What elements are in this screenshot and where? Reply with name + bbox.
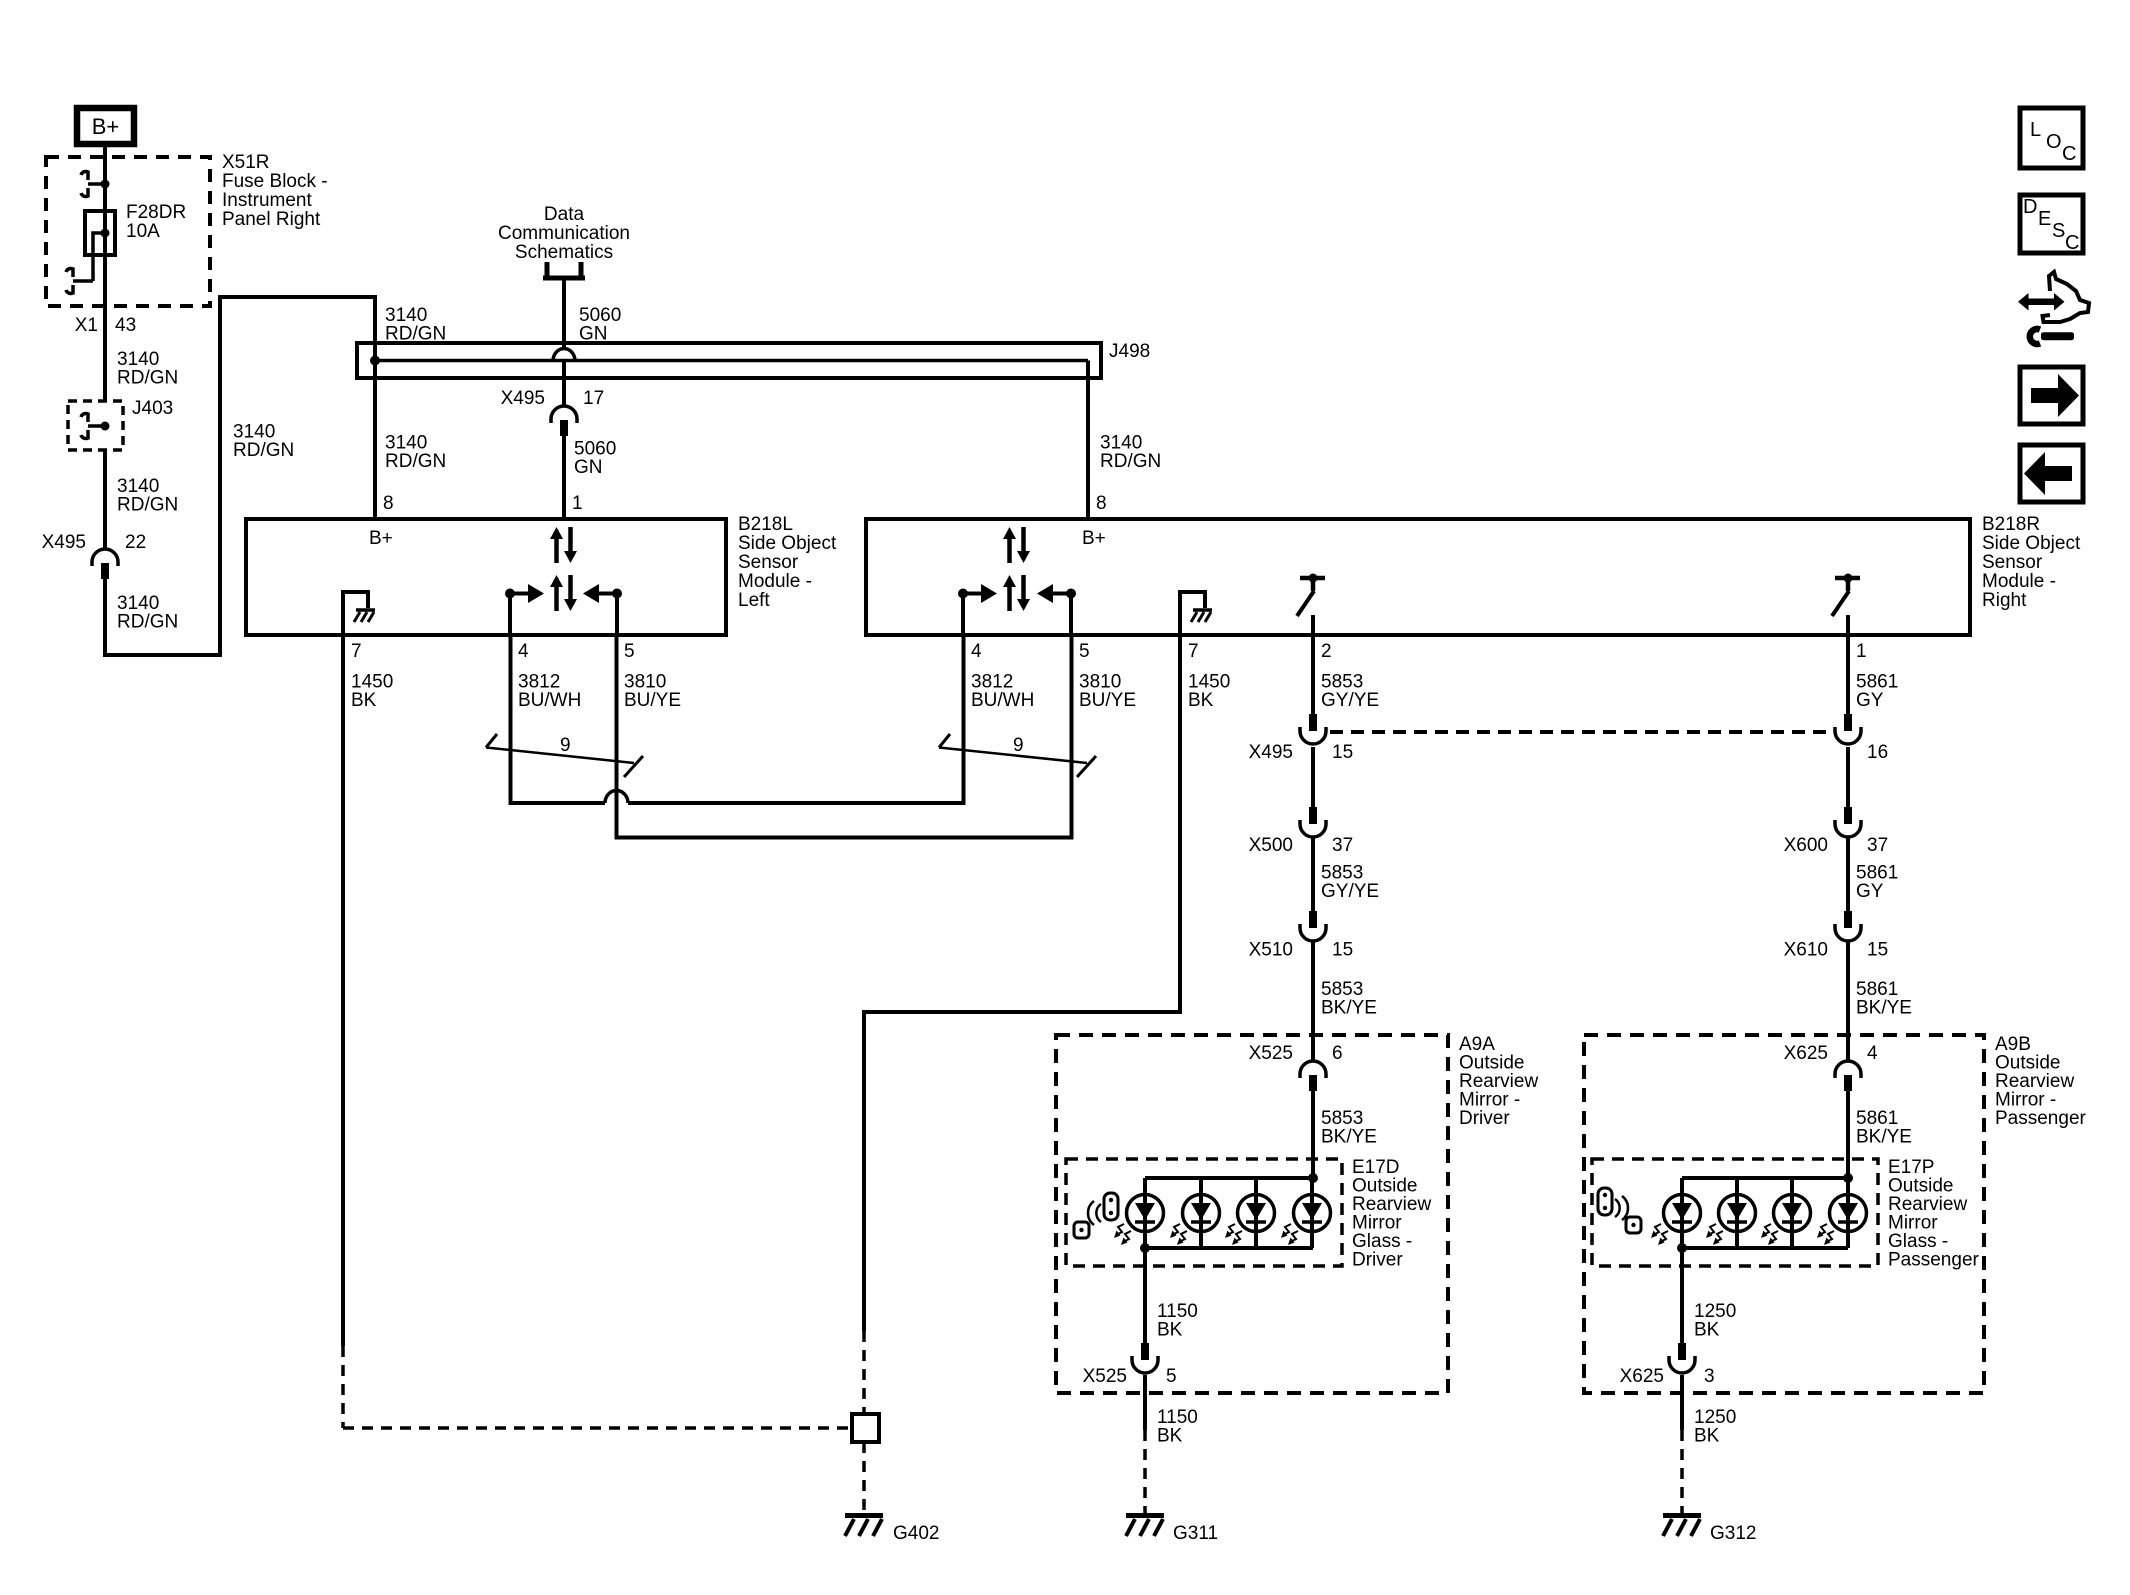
label wire 5060 GN (below X495-17) (574, 439, 616, 479)
label X495 15 (1249, 742, 1354, 763)
fuse F28DR 10A (85, 211, 115, 281)
junction dot E17D bottom (1140, 1243, 1150, 1253)
svg-text:X610: X610 (1784, 940, 1828, 961)
wire 3140 RD/GN rail to B218L pin 8 (373, 297, 377, 519)
clip inside J403 (81, 413, 110, 438)
svg-text:D: D (2023, 196, 2037, 218)
off-page bracket (543, 262, 585, 278)
label X500 37 (1249, 835, 1354, 856)
label B218R Side Object Sensor Module - Right (1982, 514, 2081, 611)
label 16 (1867, 742, 1888, 763)
svg-text:6: 6 (1332, 1043, 1343, 1064)
svg-text:7: 7 (351, 641, 362, 662)
wire 3140 RD/GN rail to B218R pin 8 (1086, 361, 1090, 520)
wire J403 to X495 (103, 450, 107, 549)
svg-text:BK/YE: BK/YE (1321, 998, 1377, 1019)
wire B218L pin 7 dashed to splice (341, 1346, 345, 1428)
connector X495 pin 16 (1835, 714, 1861, 744)
svg-text:Passenger: Passenger (1888, 1250, 1980, 1271)
svg-text:X625: X625 (1620, 1366, 1664, 1387)
svg-text:BK: BK (1157, 1426, 1183, 1447)
label wire 5853 GY/YE (pin 2) (1321, 672, 1379, 712)
label F28DR 10A (126, 202, 186, 242)
svg-text:J403: J403 (132, 398, 173, 419)
wire riser top across to J498 rail (220, 295, 377, 299)
wire to X510 (1311, 837, 1315, 911)
label G312 (1710, 1523, 1756, 1544)
wire B+ feed down into fuse block (103, 146, 107, 182)
wire dashed to G312 (1680, 1430, 1684, 1513)
svg-text:X625: X625 (1784, 1043, 1828, 1064)
ground symbol inside B218L (pin 7) (343, 592, 375, 635)
svg-text:S: S (2052, 220, 2065, 242)
wire X525-5 down (1143, 1375, 1147, 1430)
svg-text:Side Object: Side Object (1982, 533, 2081, 554)
svg-text:8: 8 (1096, 493, 1107, 514)
pin 7 label B218R (1188, 641, 1199, 662)
LED bus bars E17D (1145, 1178, 1313, 1248)
label wire 3140 RD/GN (left rail) (385, 433, 446, 473)
label wire 1450 BK (B218L pin 7) (351, 672, 393, 712)
svg-text:Panel Right: Panel Right (222, 209, 321, 230)
label wire 3140 RD/GN (right rail) (1100, 433, 1161, 473)
svg-text:4: 4 (971, 641, 982, 662)
label J403 (132, 398, 173, 419)
junction dot E17P bottom (1677, 1243, 1687, 1253)
svg-text:C: C (2065, 232, 2079, 254)
svg-text:8: 8 (383, 493, 394, 514)
connector X525 pin 5 (1132, 1343, 1158, 1373)
svg-text:RD/GN: RD/GN (385, 451, 446, 472)
wire to X600 (1846, 747, 1850, 807)
wire dashed across to G402 splice (343, 1426, 852, 1430)
wire dashed down to G402 splice (862, 1331, 866, 1414)
ground G311 (1126, 1516, 1164, 1537)
label X1 43 (75, 315, 136, 336)
label 9 (left) (560, 735, 571, 756)
svg-text:Passenger: Passenger (1995, 1108, 2087, 1129)
svg-text:B+: B+ (92, 114, 120, 139)
label wire 3812 BU/WH (B218R pin 4) (971, 672, 1034, 712)
junction dot E17P top (1843, 1173, 1853, 1183)
svg-text:B218R: B218R (1982, 514, 2040, 535)
label B+ inside B218R (1082, 528, 1106, 549)
label B218L Side Object Sensor Module - Left (738, 514, 837, 611)
wire to X525 (1311, 941, 1315, 1061)
wire 1250 BK from E17P (1680, 1248, 1684, 1343)
svg-text:4: 4 (1867, 1043, 1878, 1064)
svg-text:RD/GN: RD/GN (117, 612, 178, 633)
wire to X625 (1846, 941, 1850, 1061)
pin 5 label B218R (1079, 641, 1090, 662)
label wire 5853 GY/YE (below X495) (1321, 863, 1379, 903)
wire hop of 5060 GN over J498 bus (553, 349, 575, 362)
svg-text:3: 3 (1704, 1366, 1715, 1387)
label 9 (right) (1013, 735, 1024, 756)
node B+ battery symbol box (77, 108, 134, 144)
svg-text:BK: BK (351, 690, 377, 711)
label wire 3810 BU/YE (B218R pin 5) (1079, 672, 1136, 712)
svg-text:BK: BK (1694, 1320, 1720, 1341)
wire B218R pin 4 down (962, 637, 966, 805)
twisted pair symbol 9 (left) (486, 734, 643, 777)
wire B218L pin 4 down (509, 637, 513, 805)
svg-text:2: 2 (1321, 641, 1332, 662)
label X510 15 (1249, 940, 1354, 961)
pin 4 label B218L (518, 641, 529, 662)
connector X625 pin 4 (1835, 1061, 1861, 1091)
wire into E17P (1846, 1091, 1850, 1178)
label wire 5060 GN (above J498) (579, 305, 621, 345)
LED D3 E17D (1225, 1178, 1275, 1248)
blind zone alert icon E17D (1074, 1193, 1118, 1238)
svg-text:X600: X600 (1784, 835, 1828, 856)
svg-text:9: 9 (560, 735, 571, 756)
glass E17D dashed box (1066, 1159, 1342, 1266)
svg-text:Sensor: Sensor (738, 552, 799, 573)
svg-text:J498: J498 (1109, 341, 1150, 362)
svg-text:B+: B+ (1082, 528, 1106, 549)
svg-text:17: 17 (583, 388, 604, 409)
label wire 5861 BK/YE (inside A9B) (1856, 1108, 1912, 1148)
svg-text:BK/YE: BK/YE (1321, 1127, 1377, 1148)
label X625 3 (1620, 1366, 1715, 1387)
dashed connector tie line X495 (1330, 730, 1834, 734)
svg-text:BU/WH: BU/WH (518, 690, 581, 711)
svg-text:X500: X500 (1249, 835, 1293, 856)
label E17D Outside Rearview Mirror Glass - Driver (1352, 1157, 1431, 1271)
svg-text:5: 5 (1079, 641, 1090, 662)
svg-text:BU/WH: BU/WH (971, 690, 1034, 711)
svg-text:Schematics: Schematics (515, 242, 613, 263)
sensor switch B218R pin 2 (1297, 574, 1325, 638)
blind zone alert icon E17P (1598, 1188, 1641, 1233)
wire 5060 GN from bracket to J498 (562, 278, 566, 350)
wire 5853 pin 2 down (1311, 637, 1315, 714)
label wire 5853 BK/YE (inside A9A) (1321, 1108, 1377, 1148)
glass E17P dashed box (1592, 1159, 1878, 1266)
svg-text:Fuse Block -: Fuse Block - (222, 171, 328, 192)
svg-text:G402: G402 (893, 1523, 939, 1544)
svg-text:7: 7 (1188, 641, 1199, 662)
label wire 5853 BK/YE (below X510) (1321, 979, 1377, 1019)
svg-text:BU/YE: BU/YE (1079, 690, 1136, 711)
connector X495 pin 22 (92, 549, 118, 579)
label wire 3810 BU/YE (B218L pin 5) (624, 672, 681, 712)
wire B218R pin 7 down and across (864, 637, 1180, 1331)
svg-text:10A: 10A (126, 221, 160, 242)
wire clip to fuse (103, 184, 107, 233)
svg-text:Driver: Driver (1459, 1108, 1510, 1129)
label wire 3812 BU/WH (B218L pin 4) (518, 672, 581, 712)
LED D3 E17P (1761, 1178, 1811, 1248)
svg-text:1: 1 (572, 493, 583, 514)
svg-text:O: O (2046, 131, 2062, 153)
label X525 6 (1249, 1043, 1343, 1064)
label G402 (893, 1523, 939, 1544)
svg-text:X495: X495 (42, 532, 86, 553)
pin 8 label B218R (1096, 493, 1107, 514)
connector X525 pin 6 (1300, 1061, 1326, 1091)
LED D1 E17D (1114, 1178, 1164, 1248)
wire hop over pin5 line (605, 791, 628, 804)
svg-text:Sensor: Sensor (1982, 552, 2043, 573)
svg-text:Communication: Communication (498, 223, 630, 244)
label X495 22 (42, 532, 147, 553)
ground symbol inside B218R (pin 7) (1180, 592, 1212, 635)
wire 5060 GN to X495-17 (562, 361, 566, 406)
label wire 1150 BK (below A9A) (1157, 1407, 1198, 1447)
svg-text:L: L (2030, 119, 2041, 141)
module B218L box (246, 519, 726, 635)
label wire 3140 RD/GN (below J403) (117, 476, 178, 516)
connector X500 pin 37 (1300, 807, 1326, 837)
icon DESC button (2020, 195, 2083, 254)
pin 1 label B218L (572, 493, 583, 514)
label wire 3140 RD/GN (below X495-22) (117, 593, 178, 633)
label Data Communication Schematics (498, 204, 630, 263)
pin 8 label B218L (383, 493, 394, 514)
svg-text:X495: X495 (501, 388, 545, 409)
label wire 5861 GY (below X495) (1856, 863, 1898, 903)
svg-text:X495: X495 (1249, 742, 1293, 763)
svg-text:BU/YE: BU/YE (624, 690, 681, 711)
label wire 5861 BK/YE (below X610) (1856, 979, 1912, 1019)
pin 7 label B218L (351, 641, 362, 662)
label wire 5861 GY (pin 1) (1856, 672, 1898, 712)
svg-text:RD/GN: RD/GN (117, 495, 178, 516)
label wire 3140 RD/GN (below X1) (117, 349, 178, 389)
label X495 17 (501, 388, 605, 409)
CAN transceiver symbol B218L (505, 527, 622, 637)
wire X495-17 to B218L pin 1 (562, 436, 566, 519)
svg-text:15: 15 (1332, 742, 1353, 763)
svg-text:Left: Left (738, 590, 770, 611)
wire CAN low L5 to R5 (617, 836, 1072, 840)
wire to X500 (1311, 747, 1315, 807)
svg-text:37: 37 (1332, 835, 1353, 856)
sensor switch B218R pin 1 (1832, 574, 1860, 638)
svg-text:43: 43 (115, 315, 136, 336)
pin 5 label B218L (624, 641, 635, 662)
pin 2 label B218R (1321, 641, 1332, 662)
svg-text:GY/YE: GY/YE (1321, 690, 1379, 711)
svg-text:BK/YE: BK/YE (1856, 1127, 1912, 1148)
label X610 15 (1784, 940, 1889, 961)
wire B218L pin 7 down (341, 637, 345, 1346)
svg-text:X1: X1 (75, 315, 98, 336)
label wire 3140 RD/GN (riser) (233, 422, 294, 462)
svg-text:4: 4 (518, 641, 529, 662)
fuse clip upper terminal (81, 171, 110, 196)
fuse block X51R dashed outline (46, 157, 210, 306)
svg-text:E: E (2038, 208, 2051, 230)
svg-text:RD/GN: RD/GN (233, 440, 294, 461)
svg-text:1: 1 (1856, 641, 1867, 662)
junction dot J498 left (370, 356, 380, 366)
svg-text:GY: GY (1856, 690, 1884, 711)
svg-text:Module -: Module - (1982, 571, 2056, 592)
icon LOC button (2020, 108, 2083, 168)
svg-text:Data: Data (544, 204, 585, 225)
svg-text:BK/YE: BK/YE (1856, 998, 1912, 1019)
wire dashed splice to ground (862, 1442, 866, 1513)
pin 1 label B218R (1856, 641, 1867, 662)
svg-text:BK: BK (1694, 1426, 1720, 1447)
wire dashed to G311 (1143, 1430, 1147, 1513)
wire CAN high L4 to R4 (511, 801, 964, 805)
label A9A Outside Rearview Mirror - Driver (1459, 1034, 1538, 1129)
svg-text:G312: G312 (1710, 1523, 1756, 1544)
wire X495-22 down and over to riser (105, 579, 220, 655)
svg-text:Driver: Driver (1352, 1250, 1403, 1271)
LED D1 E17P (1651, 1178, 1701, 1248)
ground G312 (1663, 1516, 1701, 1537)
svg-text:5: 5 (1166, 1366, 1177, 1387)
connector X510 pin 15 (1300, 911, 1326, 941)
label wire 1250 BK (below A9B) (1694, 1407, 1736, 1447)
svg-text:X525: X525 (1249, 1043, 1293, 1064)
LED D4 E17P (1817, 1178, 1867, 1248)
svg-text:GY: GY (1856, 881, 1884, 902)
svg-text:9: 9 (1013, 735, 1024, 756)
wire X625-3 down (1680, 1375, 1684, 1430)
connector X600 pin 37 (1835, 807, 1861, 837)
LED D2 E17D (1170, 1178, 1220, 1248)
svg-text:RD/GN: RD/GN (1100, 451, 1161, 472)
ground G402 (845, 1516, 883, 1537)
label G311 (1173, 1523, 1218, 1544)
assembly A9B dashed box (1584, 1035, 1984, 1393)
svg-text:B+: B+ (369, 528, 393, 549)
pin 4 label B218R (971, 641, 982, 662)
svg-text:Module -: Module - (738, 571, 812, 592)
wire into E17D (1311, 1091, 1315, 1178)
wire inside J498 (375, 359, 1088, 363)
twisted pair symbol 9 (right) (939, 734, 1096, 777)
svg-text:F28DR: F28DR (126, 202, 186, 223)
svg-text:B218L: B218L (738, 514, 793, 535)
icon previous arrow button (2020, 445, 2083, 502)
wire 5861 pin 1 down (1846, 637, 1850, 714)
svg-text:5: 5 (624, 641, 635, 662)
svg-text:RD/GN: RD/GN (117, 368, 178, 389)
label wire 1250 BK (inside A9B) (1694, 1301, 1736, 1341)
wire B218R pin 5 down (1070, 637, 1074, 840)
label wire 1150 BK (inside A9A) (1157, 1301, 1198, 1341)
wire riser up (218, 295, 222, 657)
label X51R Fuse Block - Instrument Panel Right (222, 152, 328, 230)
svg-text:GN: GN (574, 457, 603, 478)
svg-text:37: 37 (1867, 835, 1888, 856)
wire fuse output through X1 pin 43 (103, 233, 107, 401)
label wire 3140 RD/GN (above J498) (385, 305, 446, 345)
svg-text:X525: X525 (1083, 1366, 1127, 1387)
label X525 5 (1083, 1366, 1177, 1387)
svg-text:15: 15 (1867, 940, 1888, 961)
svg-text:16: 16 (1867, 742, 1888, 763)
wire to X610 (1846, 837, 1850, 911)
svg-text:G311: G311 (1173, 1523, 1218, 1544)
svg-text:X510: X510 (1249, 940, 1293, 961)
svg-text:Right: Right (1982, 590, 2027, 611)
svg-text:22: 22 (125, 532, 146, 553)
connector X610 pin 15 (1835, 911, 1861, 941)
junction dot E17D top (1308, 1173, 1318, 1183)
label X600 37 (1784, 835, 1889, 856)
label B+ inside B218L (369, 528, 393, 549)
splice J403 dashed box (68, 401, 123, 450)
LED D2 E17P (1706, 1178, 1756, 1248)
svg-text:GY/YE: GY/YE (1321, 881, 1379, 902)
label A9B Outside Rearview Mirror - Passenger (1995, 1034, 2087, 1129)
module B218R box (866, 519, 1970, 635)
icon next arrow button (2020, 367, 2083, 424)
assembly A9A dashed box (1056, 1035, 1448, 1393)
wire B218L pin 5 down (615, 637, 619, 840)
label E17P Outside Rearview Mirror Glass - Passenger (1888, 1157, 1980, 1271)
svg-text:C: C (2062, 143, 2076, 165)
connector X625 pin 3 (1669, 1343, 1695, 1373)
svg-text:Instrument: Instrument (222, 190, 312, 211)
LED bus bars E17P (1682, 1178, 1848, 1248)
splice box G402 net (852, 1414, 879, 1442)
label X625 4 (1784, 1043, 1878, 1064)
svg-text:BK: BK (1188, 690, 1214, 711)
CAN transceiver symbol B218R (958, 527, 1076, 637)
label J498 (1109, 341, 1150, 362)
connector X495 pin 15 (1300, 714, 1326, 744)
svg-text:X51R: X51R (222, 152, 270, 173)
LED D4 E17D (1281, 1178, 1331, 1248)
fuse clip lower terminal (66, 268, 93, 293)
wire 1150 BK from E17D (1143, 1248, 1147, 1343)
svg-text:BK: BK (1157, 1320, 1183, 1341)
icon repair instructions (arrows and wrench) (2018, 272, 2089, 344)
splice pack J498 box (357, 343, 1101, 378)
label wire 1450 BK (B218R pin 7) (1188, 672, 1230, 712)
svg-text:15: 15 (1332, 940, 1353, 961)
svg-text:Side Object: Side Object (738, 533, 837, 554)
connector X495 pin 17 (551, 406, 577, 436)
